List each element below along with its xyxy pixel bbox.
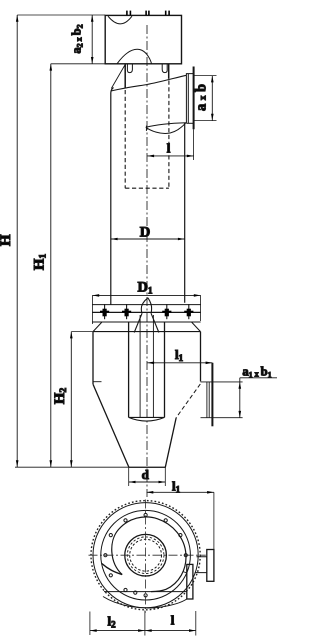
vortex finder wall right solid bbox=[168, 64, 170, 79]
central tube outer walls bbox=[129, 322, 165, 417]
baseline extension bottom bbox=[15, 466, 166, 468]
cylinder body right wall bbox=[184, 123, 186, 303]
flange ring bottom line bbox=[92, 321, 200, 323]
plan outer solid ring bbox=[93, 503, 198, 608]
dimension H1 bbox=[50, 64, 106, 467]
inlet duct flange connect bottom bbox=[186, 122, 193, 124]
helix inlet top edge bbox=[111, 75, 187, 91]
svg-text:d: d bbox=[142, 467, 150, 482]
svg-text:a1 x b1: a1 x b1 bbox=[242, 365, 271, 380]
dimension l1 side bbox=[147, 362, 212, 365]
dimension a1 x b1 bbox=[239, 378, 278, 418]
helix inlet bottom crescent bbox=[146, 123, 186, 134]
dimension l2 plan bbox=[90, 611, 196, 636]
inner cone tip bud bbox=[141, 298, 151, 313]
flange bolt 4 bbox=[184, 304, 193, 319]
dimension D1 bbox=[92, 294, 200, 324]
inlet duct end wall bbox=[186, 74, 188, 124]
chamber lid slants bbox=[93, 322, 201, 332]
vortex finder bottom hidden dashed bbox=[125, 187, 169, 189]
chamber outlet duct bottom bbox=[201, 417, 243, 419]
inlet flange extension for l dim bbox=[193, 129, 195, 160]
flange bolt 3 bbox=[162, 304, 171, 319]
chamber top rim bbox=[93, 331, 201, 333]
dimension H2 bbox=[70, 332, 93, 467]
inner cone funnel flare bbox=[134, 313, 159, 332]
inlet duct flange connect top bbox=[186, 74, 193, 76]
vortex finder wall left solid bbox=[124, 64, 126, 89]
svg-text:a x b: a x b bbox=[194, 84, 210, 111]
outlet box inner dome arc bottom bbox=[117, 49, 152, 63]
dimension d bbox=[129, 467, 166, 486]
dimension D bbox=[111, 238, 185, 241]
cone hopper right hidden dashed bbox=[176, 384, 200, 418]
crescent left tick bbox=[145, 126, 147, 131]
outlet box inner scroll arc top bbox=[108, 16, 132, 24]
plan centerline horizontal bbox=[89, 554, 206, 556]
dimension a x b bbox=[194, 76, 217, 121]
svg-text:l1: l1 bbox=[175, 347, 184, 363]
flange bolt 2 bbox=[122, 304, 131, 319]
dimension H bbox=[16, 15, 105, 467]
svg-text:a2 x b2: a2 x b2 bbox=[70, 24, 85, 53]
svg-text:l1: l1 bbox=[172, 479, 181, 495]
outlet box a2xb2 bbox=[105, 15, 181, 63]
svg-text:H: H bbox=[0, 234, 14, 246]
cylinder body left wall bbox=[111, 88, 114, 305]
central tube inner walls bbox=[140, 315, 153, 417]
svg-text:H2: H2 bbox=[52, 388, 69, 405]
flange bolt 1 bbox=[100, 304, 109, 319]
plan casing inner ring bbox=[101, 510, 191, 600]
plan outer serrated ring bbox=[91, 501, 200, 610]
chamber outlet duct end wall bbox=[207, 382, 209, 418]
flange ring top line bbox=[92, 304, 200, 306]
svg-text:D1: D1 bbox=[138, 280, 153, 296]
svg-text:l: l bbox=[167, 140, 171, 155]
spiral transition diagonal bbox=[111, 65, 125, 89]
svg-text:l: l bbox=[171, 613, 175, 628]
plan outlet duct walls bbox=[195, 557, 207, 573]
plan outlet flange plate bbox=[207, 550, 214, 582]
gusset left under box bbox=[127, 64, 132, 73]
dimension l inlet bbox=[147, 155, 193, 158]
plan innermost dashed ring bbox=[130, 539, 162, 571]
gusset right under box bbox=[162, 64, 167, 73]
bolt ticks on box top bbox=[127, 11, 169, 16]
cone hopper left bbox=[93, 384, 129, 467]
plan bolt holes bbox=[104, 513, 188, 597]
svg-text:H1: H1 bbox=[32, 254, 49, 271]
chamber wall right bbox=[200, 332, 202, 382]
inlet flange plate bbox=[193, 67, 195, 130]
dimension l1 plan bbox=[147, 491, 214, 550]
plan inner tube ring bbox=[125, 534, 167, 576]
plan spiral scroll bbox=[112, 517, 186, 592]
chamber inner weld line bbox=[93, 381, 102, 383]
plan inlet duct top wall bbox=[104, 591, 187, 593]
vortex finder wall right hidden dashed bbox=[168, 81, 170, 189]
plan inlet flange plate bbox=[187, 564, 193, 599]
plan inner dashed ring bbox=[127, 537, 164, 574]
cone outlet bottom bbox=[129, 466, 165, 468]
chamber outlet duct top bbox=[201, 381, 243, 383]
plan inlet duct bottom wall bbox=[103, 597, 187, 608]
chamber wall left bbox=[92, 332, 94, 385]
dimension a2 x b2 bbox=[91, 15, 94, 64]
plan spiral outer hook bbox=[102, 564, 122, 575]
central tube cap bbox=[129, 417, 165, 421]
centerline main axis bbox=[146, 25, 148, 497]
svg-text:D: D bbox=[140, 225, 150, 241]
vortex finder wall left hidden dashed bbox=[124, 90, 126, 188]
plan centerline vertical bbox=[145, 500, 147, 613]
chamber outlet flange plate bbox=[211, 363, 213, 427]
svg-text:l2: l2 bbox=[107, 614, 116, 630]
plan inlet duct junction bbox=[183, 572, 187, 573]
flange ring mating line bbox=[92, 311, 200, 313]
cone hopper right bbox=[165, 418, 176, 468]
